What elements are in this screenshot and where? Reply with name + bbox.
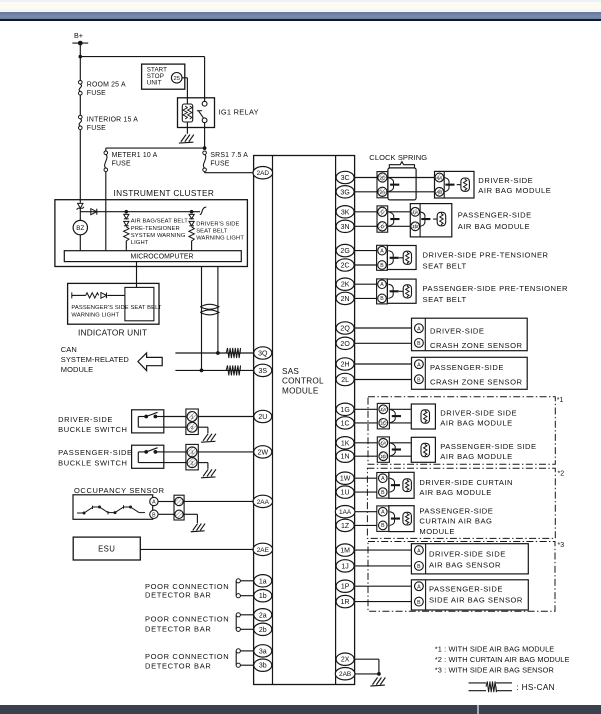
wire [240,664,254,666]
wire [106,147,205,149]
module DRIVER-SIDE SIDE AIR BAG MODULE [411,404,435,429]
wire [186,78,188,104]
svg-text:PASSENGER-SIDE: PASSENGER-SIDE [429,584,503,593]
svg-text:1: 1 [191,414,194,419]
svg-text:1G: 1G [340,407,349,414]
svg-text:PASSENGER'S SIDE SEAT BELT: PASSENGER'S SIDE SEAT BELT [71,305,162,311]
node 2U (SAS control module pin) [254,410,272,422]
wire [355,601,412,603]
wire [388,191,435,193]
svg-text:2C: 2C [341,263,350,270]
connector pins 1A/1E [377,437,389,462]
wire [164,462,186,464]
wire [79,130,81,203]
svg-text:SAS: SAS [282,367,299,376]
wire [355,565,412,567]
junction [79,55,83,59]
svg-text:B: B [417,600,421,606]
svg-text:DRIVER'S SIDE: DRIVER'S SIDE [196,222,239,228]
svg-text:*2: *2 [558,470,565,477]
ground [191,524,205,532]
wire [72,42,88,44]
buzzer BZ [73,220,87,234]
box INDICATOR UNIT [68,283,159,324]
svg-text:2L: 2L [341,377,349,384]
svg-text:2AB: 2AB [339,671,351,678]
svg-text:SYSTEM WARNING: SYSTEM WARNING [131,233,186,239]
wire [198,416,254,418]
module ESU [73,537,140,560]
svg-text:2W: 2W [258,449,269,456]
node 2AE (SAS control module pin) [253,543,273,555]
pin A [150,497,158,505]
svg-text:2U: 2U [258,414,267,421]
node 1U (SAS control module pin) [336,486,354,498]
svg-text:CRASH ZONE SENSOR: CRASH ZONE SENSOR [430,378,522,387]
module SAS CONTROL MODULE [254,156,355,685]
node 2AA (SAS control module pin) [253,495,273,507]
wire [355,177,377,179]
wire CAN high [175,352,254,354]
connector pins A/B [377,279,388,304]
wire [240,595,254,597]
node 3b (SAS control module pin) [254,659,272,671]
arrow to CAN module [138,353,162,371]
pin A [415,360,424,369]
svg-text:1b: 1b [259,593,267,600]
node 3a (SAS control module pin) [254,645,272,657]
svg-text:INTERIOR 15 A: INTERIOR 15 A [87,116,138,123]
svg-text:SEAT BELT: SEAT BELT [423,295,467,304]
wire [355,549,412,551]
squib (driver pre-tensioner) [403,251,411,264]
ground [370,678,385,687]
svg-text:SRS1 7.5 A: SRS1 7.5 A [210,152,248,159]
wire [79,43,81,80]
detector bar terminals [235,651,237,665]
wire [158,513,174,515]
pin A [415,546,424,555]
svg-text:2H: 2H [341,362,350,369]
svg-text:PASSENGER-SIDE PRE-TENSIONER: PASSENGER-SIDE PRE-TENSIONER [423,284,569,293]
wire [389,422,411,424]
svg-text:1Z: 1Z [341,523,350,530]
wire [389,442,411,444]
svg-text:AIR BAG MODULE: AIR BAG MODULE [440,419,512,428]
box MICROCOMPUTER [64,251,241,262]
wire [378,659,380,674]
node 2H (SAS control module pin) [336,358,354,370]
pre-tensioner DRIVER-SIDE SEAT BELT [387,246,416,270]
svg-text:2A: 2A [380,190,387,195]
coil (HS-CAN) [226,348,240,358]
zener diode [78,203,83,208]
node 1N (SAS control module pin) [336,450,354,462]
node 2K (SAS control module pin) [336,278,354,290]
wire [355,491,377,493]
node 1Z (SAS control module pin) [336,519,354,531]
svg-text:*3: *3 [558,542,565,549]
node 1M (SAS control module pin) [336,544,354,556]
svg-text:ESU: ESU [98,545,115,554]
wire [355,264,377,266]
detector bar terminals [235,581,237,596]
svg-text:1W: 1W [340,476,351,483]
wire [355,673,379,675]
node 1a (SAS control module pin) [254,575,272,587]
svg-text:3a: 3a [259,648,267,655]
connector [390,443,396,447]
svg-text:1C: 1C [341,420,350,427]
svg-text:1AA: 1AA [339,509,352,516]
wire [388,177,435,179]
wire [205,172,254,174]
wire [389,455,411,457]
svg-text:1: 1 [191,450,194,455]
svg-text:A: A [417,362,421,368]
detector bar terminals [235,615,237,630]
node 2X (SAS control module pin) [336,653,354,665]
wire [158,501,174,503]
wire [105,148,107,151]
svg-text:1N: 1N [341,454,350,461]
svg-text:BUCKLE SWITCH: BUCKLE SWITCH [58,425,127,434]
page top banner [0,0,601,2]
wire [240,614,254,616]
connector [390,409,396,413]
svg-text:1B: 1B [412,224,418,229]
wire [355,379,412,381]
ground [201,434,216,443]
node 2a (SAS control module pin) [254,609,272,621]
svg-text:1P: 1P [341,584,350,591]
junction [377,672,381,676]
node 2W (SAS control module pin) [254,446,272,458]
node 1P (SAS control module pin) [336,580,354,592]
svg-text:2Q: 2Q [340,326,350,333]
connector [388,212,394,216]
svg-text:DETECTOR BAR: DETECTOR BAR [145,625,211,634]
wire [198,451,254,453]
sensor OCCUPANCY SENSOR [73,495,153,520]
wire [71,292,73,298]
wire [355,455,378,457]
node 2L (SAS control module pin) [336,373,354,385]
svg-text:FUSE: FUSE [210,161,229,168]
sensor DRIVER-SIDE SIDE AIR BAG SENSOR [411,544,528,574]
pin B [415,562,424,571]
node 1W (SAS control module pin) [336,472,354,484]
pin B [415,339,424,348]
pin B [150,510,158,518]
svg-text:INDICATOR UNIT: INDICATOR UNIT [78,327,147,337]
node 2b (SAS control module pin) [254,623,272,635]
node 1J (SAS control module pin) [336,560,354,572]
svg-text:SIDE AIR BAG SENSOR: SIDE AIR BAG SENSOR [429,596,523,605]
svg-text:2: 2 [191,425,194,430]
fuse ROOM 25 A [79,81,83,85]
module PASSENGER-SIDE SIDE AIR BAG MODULE [411,437,435,462]
page bottom bar [0,705,601,714]
clock spring bracket [389,162,414,169]
option box *3 (side air bag sensors) [368,542,555,612]
relay IG1 RELAY [178,98,215,128]
fuse INTERIOR 15 A [79,115,83,119]
twisted pair symbol [200,304,219,309]
svg-text:3N: 3N [341,224,350,231]
svg-text:B: B [417,377,421,383]
wire [355,363,412,365]
legend HS-CAN symbol [469,682,487,684]
svg-text:2b: 2b [259,627,267,634]
svg-text:A: A [417,584,421,590]
pin 25 (start stop unit output) [171,73,182,84]
svg-text:PASSENGER-SIDE: PASSENGER-SIDE [430,363,504,372]
node 3N (SAS control module pin) [336,220,354,232]
wire [355,283,377,285]
svg-text:MODULE: MODULE [282,387,319,396]
svg-text:B: B [380,296,384,302]
svg-text:AIR BAG MODULE: AIR BAG MODULE [419,488,491,497]
wire [80,211,200,213]
svg-text:3b: 3b [259,663,267,670]
node 2G (SAS control module pin) [336,244,354,256]
squib [421,443,430,456]
wire [125,241,127,251]
svg-text:ROOM 25 A: ROOM 25 A [87,82,126,89]
box START STOP UNIT [142,64,185,89]
diode [101,293,107,299]
wire [355,327,412,329]
node 3Q (SAS control module pin) [254,347,272,359]
svg-text:POOR CONNECTION: POOR CONNECTION [145,614,229,623]
svg-text:POOR CONNECTION: POOR CONNECTION [145,652,229,661]
svg-text:1K: 1K [341,440,350,447]
svg-text:A: A [381,510,385,516]
svg-text:B: B [381,523,385,529]
svg-text:B: B [417,564,421,570]
connector pins 2E/2A (clock spring) [377,172,388,198]
svg-text:MODULE: MODULE [419,527,455,536]
svg-text:B: B [380,263,384,269]
svg-text:DRIVER-SIDE PRE-TENSIONER: DRIVER-SIDE PRE-TENSIONER [423,250,549,259]
svg-text:DETECTOR BAR: DETECTOR BAR [145,661,211,670]
svg-text:3K: 3K [341,209,350,216]
node 3S (SAS control module pin) [254,364,272,376]
svg-text:DETECTOR BAR: DETECTOR BAR [145,590,211,599]
option box *2 (curtain air bag modules) [367,468,555,538]
node 1AA (SAS control module pin) [335,506,355,518]
svg-text:AIR BAG SENSOR: AIR BAG SENSOR [429,560,501,569]
wire [217,267,219,354]
svg-text:1E: 1E [380,454,386,459]
svg-text:3S: 3S [259,368,268,375]
svg-text:OCCUPANCY SENSOR: OCCUPANCY SENSOR [74,486,165,495]
wire [204,172,206,173]
svg-text:2AA: 2AA [257,499,270,506]
junction [78,41,83,46]
svg-text:2G: 2G [340,248,349,255]
svg-text:INSTRUMENT CLUSTER: INSTRUMENT CLUSTER [114,188,215,198]
svg-text:CONTROL: CONTROL [282,377,324,386]
wire [184,513,197,515]
svg-text:SEAT BELT: SEAT BELT [196,229,228,235]
svg-text:1A: 1A [380,441,387,446]
wire [108,294,125,296]
connector pins [186,409,198,435]
svg-text:DRIVER-SIDE SIDE: DRIVER-SIDE SIDE [429,550,506,559]
squib (passenger pre-tensioner) [403,285,411,298]
svg-text:MODULE: MODULE [61,365,93,374]
squib [403,479,412,492]
relay coil [182,104,192,122]
node 1K (SAS control module pin) [336,437,354,449]
svg-text:A: A [417,548,421,554]
wire [388,211,411,213]
node 2AD (SAS control module pin) [253,167,273,179]
wire [79,95,81,115]
wire [80,56,204,58]
svg-text:SEAT BELT: SEAT BELT [423,262,467,271]
svg-text:BUCKLE SWITCH: BUCKLE SWITCH [58,458,127,467]
wire [355,225,377,227]
wire [355,297,377,299]
svg-text:2X: 2X [341,657,350,664]
svg-text:DRIVER-SIDE SIDE: DRIVER-SIDE SIDE [440,409,517,418]
svg-text:DRIVER-SIDE: DRIVER-SIDE [58,415,113,424]
svg-text:A: A [381,476,385,482]
switch PASSENGER-SIDE buckle [132,445,164,468]
wire [191,241,193,251]
svg-text:1A: 1A [412,210,419,215]
svg-text:B+: B+ [74,31,83,40]
wire [355,191,377,193]
wire [140,548,254,550]
svg-text:3C: 3C [341,175,350,182]
svg-text:AIR BAG MODULE: AIR BAG MODULE [458,222,530,231]
svg-text:WARNING LIGHT: WARNING LIGHT [71,312,119,318]
svg-text:LIGHT: LIGHT [131,240,149,246]
wire [186,122,188,134]
svg-text:1J: 1J [341,563,348,570]
option box *1 (side air bag modules) [368,397,555,464]
warning lamp symbol (diodes + resistor) [189,214,194,218]
node 1G (SAS control module pin) [336,403,354,415]
sensor PASSENGER-SIDE CRASH ZONE SENSOR [412,357,528,389]
node 1b (SAS control module pin) [254,590,272,602]
node 3G (SAS control module pin) [336,186,354,198]
node 2O (SAS control module pin) [336,337,354,349]
wire [198,462,208,464]
svg-text:2: 2 [191,460,194,465]
svg-text:*2 : WITH CURTAIN AIR BAG MODU: *2 : WITH CURTAIN AIR BAG MODULE [435,655,570,664]
module DRIVER-SIDE CURTAIN AIR BAG MODULE [389,472,414,498]
module PASSENGER-SIDE AIR BAG MODULE [410,204,452,237]
connector pins A/B [377,245,388,270]
wire [136,262,138,288]
wire [198,426,208,428]
node 3C (SAS control module pin) [336,171,354,183]
connector pins C/D [377,206,388,232]
svg-text:2a: 2a [259,612,267,619]
junction [216,351,220,355]
svg-text:1A: 1A [380,407,387,412]
wire [355,477,377,479]
svg-text:*3 : WITH SIDE AIR BAG SENSOR: *3 : WITH SIDE AIR BAG SENSOR [435,666,554,675]
ground [201,469,216,478]
wire [355,585,412,587]
svg-text:FUSE: FUSE [87,125,106,132]
wire [355,211,377,213]
svg-text:AIR BAG/SEAT BELT: AIR BAG/SEAT BELT [131,219,188,225]
switch DRIVER-SIDE buckle [132,410,164,433]
junction [190,210,194,214]
box lamp (indicator unit) [125,287,154,320]
connector pins A/B [377,506,389,532]
sensor PASSENGER-SIDE SIDE AIR BAG SENSOR [411,580,528,610]
wire [79,235,81,251]
connector pins 1A/1E [377,403,389,429]
svg-text:2AD: 2AD [257,170,270,177]
switch (cluster input) [200,207,207,214]
svg-text:SYSTEM-RELATED: SYSTEM-RELATED [61,355,130,364]
clock spring boundary box [388,168,416,200]
svg-text:1U: 1U [341,490,350,497]
node 2AB (SAS control module pin) [335,668,355,680]
svg-text:2N: 2N [341,296,350,303]
svg-text:2O: 2O [340,341,350,348]
fuse METER1 10 A [104,151,108,155]
svg-text:DRIVER-SIDE: DRIVER-SIDE [430,327,484,336]
svg-text:PASSENGER-SIDE: PASSENGER-SIDE [458,211,532,220]
node 1R (SAS control module pin) [336,595,354,607]
svg-text:1M: 1M [340,548,350,555]
wire [105,172,107,251]
svg-text:B: B [381,490,385,496]
wire [240,650,254,652]
wire [164,416,186,418]
svg-text:4B: 4B [437,190,443,195]
wire [240,580,254,582]
wire [355,422,378,424]
svg-text:B: B [152,512,156,518]
squib [421,410,430,423]
coil (HS-CAN) [226,365,240,375]
fuse SRS1 7.5 A [203,151,207,155]
pin A [415,324,424,333]
svg-text:BZ: BZ [76,225,84,232]
junction [125,210,129,214]
wire [182,77,187,79]
pin B [415,375,424,384]
ground [179,135,194,144]
pin B [415,597,424,606]
svg-text:A: A [380,282,384,288]
connector (in clock spring) [388,178,394,182]
node 1C (SAS control module pin) [336,417,354,429]
svg-text:PASSENGER-SIDE: PASSENGER-SIDE [419,507,493,516]
box INSTRUMENT CLUSTER [55,200,248,267]
svg-text:PASSENGER-SIDE: PASSENGER-SIDE [58,448,133,457]
wire [355,408,378,410]
node 2N (SAS control module pin) [336,292,354,304]
svg-text:FUSE: FUSE [87,90,106,97]
svg-text:A: A [417,326,421,332]
connector pins [174,495,184,520]
svg-text:AIR BAG MODULE: AIR BAG MODULE [478,186,551,195]
svg-text:CLOCK SPRING: CLOCK SPRING [369,153,427,162]
svg-text:WARNING LIGHT: WARNING LIGHT [196,236,244,242]
